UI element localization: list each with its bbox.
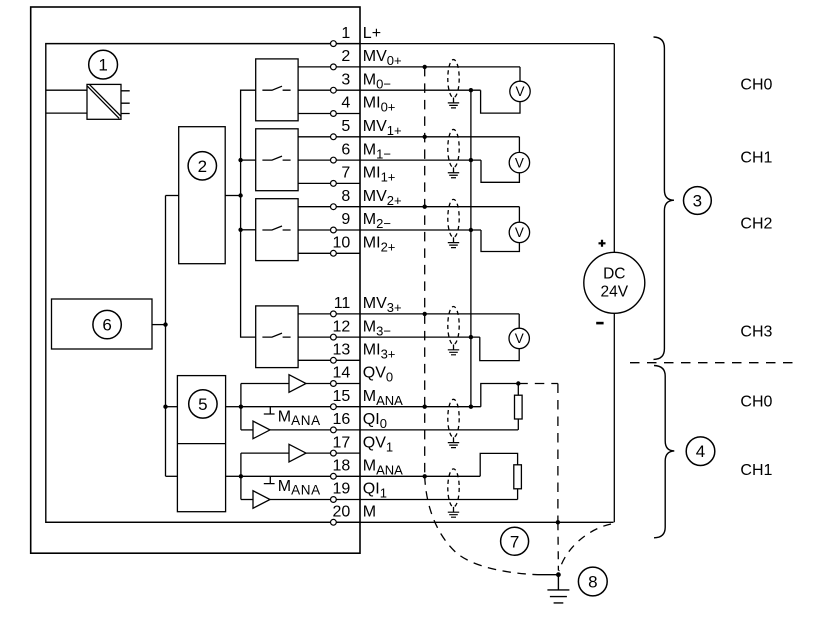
terminal pin 4 circle xyxy=(331,111,337,117)
svg-text:7: 7 xyxy=(510,532,519,551)
svg-text:CH3: CH3 xyxy=(740,324,772,341)
dashed equipotential to earth point xyxy=(557,522,560,570)
junction M-bus row 12 xyxy=(469,335,473,339)
svg-text:V: V xyxy=(515,331,524,346)
left spine vertical wire xyxy=(165,196,167,477)
terminal pin 8 circle xyxy=(331,204,337,210)
terminal 19 QI1 wire xyxy=(270,499,518,501)
terminal 18 MANA wire xyxy=(241,475,480,477)
DC 24V source xyxy=(584,252,645,313)
wire MV3+ down to voltmeter xyxy=(518,314,520,328)
wire M to converter xyxy=(46,112,87,114)
earth ground symbol xyxy=(547,575,569,603)
callout 5 block (output DAC box) xyxy=(177,376,225,512)
svg-text:1: 1 xyxy=(98,56,107,75)
svg-text:20: 20 xyxy=(333,504,351,521)
module inner boundary box (top edge is L+ rail, bottom edge is M rail) xyxy=(46,44,360,523)
wire into resistor R1 xyxy=(517,384,519,396)
dashed bonding curve from M corner to earth xyxy=(559,524,611,571)
wire bus to CH1 switch xyxy=(241,159,256,161)
svg-text:24V: 24V xyxy=(601,284,629,301)
callout 7 xyxy=(501,527,529,555)
output bus A vertical xyxy=(240,384,242,430)
cable shield ellipse CH1 input xyxy=(448,129,459,167)
wire box5 to out bus B xyxy=(226,475,241,477)
wire box2 to bus xyxy=(225,195,240,197)
junction outbusB/box5 xyxy=(239,474,243,478)
svg-text:13: 13 xyxy=(333,342,351,359)
shield earth stub CH3 input xyxy=(453,345,455,350)
junction dashed-line row 15 xyxy=(423,405,427,409)
svg-text:16: 16 xyxy=(333,411,351,428)
terminal 7 MI1+ wire xyxy=(298,182,360,184)
terminal 10 MI2+ wire xyxy=(298,252,360,254)
terminal 11 MV3+ wire xyxy=(298,313,519,315)
shield earth symbol CH2 input xyxy=(448,243,459,248)
junction dashed-line row 8 xyxy=(423,205,427,209)
terminal 15 MANA wire xyxy=(241,406,481,408)
svg-text:L+: L+ xyxy=(363,25,381,42)
terminal pin 2 circle xyxy=(331,64,337,70)
MANA reference stub 2 xyxy=(264,476,275,483)
callout 4 xyxy=(686,437,715,466)
DC/DC converter U1 box xyxy=(87,84,121,119)
svg-text:18: 18 xyxy=(333,458,351,475)
dashed separator input/output xyxy=(630,362,793,364)
junction M-bus row 3 xyxy=(469,88,473,92)
svg-text:V: V xyxy=(515,225,524,240)
brace 3 (input channels group) xyxy=(654,37,675,359)
op-amp output driver QI0 xyxy=(253,421,270,439)
svg-text:CH1: CH1 xyxy=(740,150,772,167)
terminal 13 MI3+ wire xyxy=(298,359,360,361)
junction spine/box6 xyxy=(163,322,167,326)
callout 1 (DC/DC converter) xyxy=(89,50,118,79)
shield earth symbol CH1 input xyxy=(448,173,459,178)
wire resistor R1 to QI0 xyxy=(517,419,519,430)
switch contact S1 xyxy=(262,156,290,160)
wire MANA up to load R1 top xyxy=(481,384,519,407)
svg-text:12: 12 xyxy=(333,318,351,335)
wire MV1+ down to voltmeter xyxy=(518,137,520,153)
wire box6 to spine xyxy=(152,324,166,326)
input switch box CH0 xyxy=(256,59,298,121)
MANA reference stub 1 xyxy=(264,407,275,414)
svg-text:V: V xyxy=(515,84,524,99)
terminal 8 MV2+ wire xyxy=(298,206,519,208)
callout 8 xyxy=(578,567,607,596)
svg-text:3: 3 xyxy=(341,71,350,88)
wire busB to QV1 amp xyxy=(241,452,289,454)
dashed MANA equipotential vertical xyxy=(424,67,426,476)
terminal 1 L+ wire xyxy=(46,43,615,45)
terminal pin 17 circle xyxy=(331,450,337,456)
terminal pin 12 circle xyxy=(331,334,337,340)
box5 divider xyxy=(177,443,225,445)
output bus B vertical xyxy=(240,453,242,499)
terminal 14 QV0 wire xyxy=(306,383,360,385)
wire busA to QV0 amp xyxy=(241,383,289,385)
svg-text:14: 14 xyxy=(333,365,351,382)
input switch box CH2 xyxy=(256,199,298,261)
svg-text:CH2: CH2 xyxy=(740,216,772,233)
shield earth stub CH0 output xyxy=(453,437,455,442)
shield earth symbol CH1 output xyxy=(448,512,459,517)
module outer enclosure frame xyxy=(31,7,360,553)
wire bus to CH2 switch xyxy=(241,229,256,231)
switch contact S0 xyxy=(262,86,290,90)
svg-text:6: 6 xyxy=(341,141,350,158)
wire into earth point xyxy=(538,574,559,576)
svg-text:CH0: CH0 xyxy=(740,77,772,94)
svg-text:DC: DC xyxy=(603,265,625,282)
voltmeter V CH0 xyxy=(510,81,530,101)
op-amp output driver QV0 xyxy=(289,375,306,393)
callout 2 xyxy=(188,152,216,180)
terminal 9 M2- wire xyxy=(298,229,481,231)
svg-text:2: 2 xyxy=(198,157,207,176)
wire voltmeter bottom CH0 xyxy=(481,90,520,113)
shield earth symbol CH3 input xyxy=(448,350,459,355)
cable shield ellipse CH3 input xyxy=(448,307,459,345)
svg-text:11: 11 xyxy=(334,295,351,312)
op-amp output driver QV1 xyxy=(289,444,306,462)
op-amp output driver QI1 xyxy=(253,491,270,509)
dashed equipotential vertical xyxy=(557,384,559,523)
input switch box CH3 xyxy=(256,306,298,368)
DC/DC converter diagonal stripe xyxy=(87,85,121,119)
terminal 6 M1- wire xyxy=(298,159,481,161)
shield earth stub CH0 input xyxy=(453,98,455,103)
callout 6 block (controller box) xyxy=(52,299,153,349)
svg-text:8: 8 xyxy=(588,573,597,592)
terminal 5 MV1+ wire xyxy=(298,136,519,138)
svg-text:15: 15 xyxy=(333,388,351,405)
svg-text:17: 17 xyxy=(333,434,351,451)
shield earth stub CH1 output xyxy=(453,507,455,512)
terminal 20 M wire xyxy=(46,521,614,523)
junction spine/box5 xyxy=(163,405,167,409)
voltmeter V CH3 xyxy=(509,328,529,348)
terminal 17 QV1 wire xyxy=(306,452,360,454)
dashed wire load top to equipotential xyxy=(518,383,558,385)
voltmeter V CH1 xyxy=(509,152,529,172)
terminal pin 18 circle xyxy=(331,473,337,479)
junction dashed-line row 11 xyxy=(423,312,427,316)
terminal 12 M3- wire xyxy=(298,336,480,338)
callout 5 xyxy=(189,390,217,418)
internal bus vertical (mux to switches) xyxy=(241,90,256,337)
switch contact S3 xyxy=(262,333,290,337)
shield earth stub CH2 input xyxy=(453,237,455,242)
wire L+ to converter xyxy=(46,89,87,91)
svg-text:10: 10 xyxy=(333,235,351,252)
svg-text:19: 19 xyxy=(333,481,351,498)
terminal pin 13 circle xyxy=(331,357,337,363)
svg-text:4: 4 xyxy=(696,442,705,461)
wire box2 left to spine xyxy=(166,195,179,197)
terminal 4 MI0+ wire xyxy=(298,113,360,115)
svg-text:CH1: CH1 xyxy=(740,462,772,479)
wire MV0+ down to voltmeter xyxy=(519,67,521,81)
wire spine to box5 lower xyxy=(166,475,178,477)
terminal pin 7 circle xyxy=(331,181,337,187)
wire resistor R2 to QI1 xyxy=(517,489,519,500)
junction dashed-line row 2 xyxy=(423,65,427,69)
junction M wire / equipotential xyxy=(556,520,560,524)
terminal pin 16 circle xyxy=(331,427,337,433)
junction bus/CH2 xyxy=(238,228,242,232)
junction dashed-line row 18 xyxy=(423,474,427,478)
M-minus common bus vertical wire xyxy=(470,90,472,407)
terminal pin 19 circle xyxy=(331,497,337,503)
callout 2 block (input multiplexer box) xyxy=(179,127,226,264)
junction bus/box2 xyxy=(238,193,242,197)
wire busB to QI1 amp xyxy=(241,499,253,501)
cable shield ellipse CH0 output xyxy=(448,399,459,437)
shield earth symbol CH0 input xyxy=(448,103,459,108)
terminal pin 10 circle xyxy=(331,250,337,256)
wire MANA up to load R2 top xyxy=(480,453,517,476)
junction M-bus row 9 xyxy=(469,228,473,232)
terminal pin 9 circle xyxy=(331,227,337,233)
terminal pin 14 circle xyxy=(331,381,337,387)
svg-text:1: 1 xyxy=(341,25,350,42)
terminal pin 11 circle xyxy=(331,311,337,317)
svg-text:5: 5 xyxy=(341,118,350,135)
dashed bonding curve 7 (MANA line to earth) xyxy=(425,476,538,574)
terminal pin 15 circle xyxy=(331,404,337,410)
svg-text:V: V xyxy=(515,155,524,170)
terminal 2 MV0+ wire xyxy=(298,66,520,68)
cable shield ellipse CH1 output xyxy=(448,469,459,507)
terminal 16 QI0 wire xyxy=(270,429,518,431)
input switch box CH1 xyxy=(256,129,298,191)
shield earth stub CH1 input xyxy=(453,167,455,172)
wire MV2+ down to voltmeter xyxy=(518,207,520,223)
wire box5 to out bus A xyxy=(226,406,241,408)
wire DC source minus to M xyxy=(613,313,615,522)
earth junction node xyxy=(556,572,561,577)
minus sign xyxy=(596,322,603,325)
resistor R2 (CH1 load) xyxy=(514,465,522,489)
terminal pin 20 circle xyxy=(331,519,337,525)
wire voltmeter bottom CH3 xyxy=(480,337,519,361)
terminal 3 M0- wire xyxy=(298,89,481,91)
svg-text:M: M xyxy=(363,504,376,521)
voltmeter V CH2 xyxy=(509,222,529,242)
junction dashed-line row 5 xyxy=(423,135,427,139)
wire busA to QI0 amp xyxy=(241,429,253,431)
svg-text:9: 9 xyxy=(341,211,350,228)
cable shield ellipse CH0 input xyxy=(448,60,459,98)
svg-text:3: 3 xyxy=(693,192,702,211)
resistor R1 (CH0 load) xyxy=(515,395,523,419)
svg-text:4: 4 xyxy=(341,95,350,112)
junction load R1 top xyxy=(516,381,520,385)
brace 4 (output channels group) xyxy=(654,366,674,538)
DC/DC converter output pins xyxy=(121,91,130,114)
svg-text:5: 5 xyxy=(198,395,207,414)
callout 6 xyxy=(93,310,121,338)
junction bus/CH1 xyxy=(238,158,242,162)
plus sign xyxy=(599,240,606,247)
junction outbusA/box5 xyxy=(239,405,243,409)
shield earth symbol CH0 output xyxy=(448,443,459,448)
wire voltmeter bottom CH1 xyxy=(481,160,519,182)
wire voltmeter bottom CH2 xyxy=(481,230,519,252)
svg-text:2: 2 xyxy=(341,48,350,65)
cable shield ellipse CH2 input xyxy=(448,199,459,237)
wire L+ to DC source plus xyxy=(613,44,615,253)
terminal pin 6 circle xyxy=(331,157,337,163)
svg-text:8: 8 xyxy=(341,188,350,205)
wire spine to box5 upper xyxy=(166,406,178,408)
switch contact S2 xyxy=(262,226,290,230)
svg-text:7: 7 xyxy=(341,165,350,182)
junction M-bus row 15 xyxy=(469,405,473,409)
junction M-bus row 6 xyxy=(469,158,473,162)
terminal pin 5 circle xyxy=(331,134,337,140)
terminal pin 1 circle xyxy=(331,41,337,47)
terminal pin 3 circle xyxy=(331,87,337,93)
svg-text:6: 6 xyxy=(102,316,111,335)
callout 3 xyxy=(684,187,712,215)
svg-text:CH0: CH0 xyxy=(740,393,772,410)
